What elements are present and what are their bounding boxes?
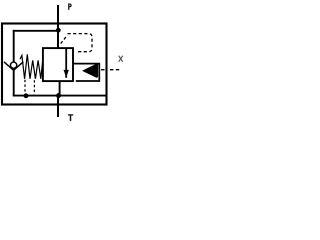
wire: check valve branch lower: [13, 70, 15, 96]
node: junction of main stage and T gallery: [56, 93, 61, 98]
port label P: [69, 3, 71, 9]
port label X: [119, 56, 123, 62]
wire: internal P gallery (horizontal): [13, 30, 59, 32]
port label T: [68, 115, 73, 121]
pilot actuator box (attached right of square): [73, 64, 99, 81]
pilot actuator triangle (hydraulic pilot, points left): [84, 65, 97, 77]
flow arrow inside square (closed poppet): [65, 49, 67, 78]
wire: T port line: [57, 96, 59, 117]
pilot triangle base bar: [96, 64, 98, 77]
main valve square: [43, 48, 73, 81]
second drain line (dashed): [33, 80, 35, 92]
pilot line (dashed, over the top and down to square right side): [68, 34, 93, 52]
check valve seat (V): [4, 62, 23, 71]
node: junction of spring drain and T gallery: [24, 93, 29, 98]
spring chamber drain (dashed): [24, 80, 26, 95]
X pilot port line (dashed): [101, 69, 119, 71]
wire: internal T gallery (horizontal bottom): [13, 95, 107, 97]
pilot line (dashed diagonal tap from P line): [61, 35, 68, 43]
wire: check valve branch upper: [13, 30, 15, 62]
check valve ball: [10, 62, 16, 68]
wire: P port line: [57, 5, 59, 48]
outer box (valve body envelope): [2, 24, 107, 105]
node: junction of P line and gallery: [56, 28, 61, 33]
spring (zigzag, against square left side): [20, 54, 43, 79]
wire: main stage to T gallery: [59, 81, 61, 96]
